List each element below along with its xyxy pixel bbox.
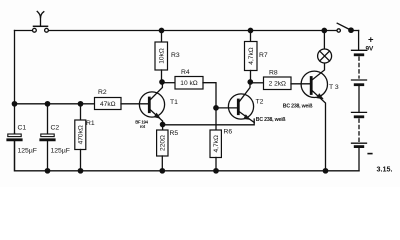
- wire R2 to T1 base: [121, 103, 148, 105]
- battery minus sign: [368, 153, 372, 155]
- svg-text:220Ω: 220Ω: [160, 135, 167, 151]
- svg-text:125µF: 125µF: [51, 148, 70, 155]
- svg-text:T 3: T 3: [329, 84, 339, 91]
- transistor T1 circle: [139, 92, 164, 117]
- resistor R2 body: [95, 98, 122, 110]
- resistor R3 body: [161, 31, 163, 43]
- resistor R4 body: [162, 82, 175, 84]
- svg-text:R4: R4: [181, 69, 190, 76]
- switch S2 contact circle: [337, 29, 340, 32]
- transistor T2 emitter arrow: [243, 114, 250, 120]
- node dot R7 bottom / R8 / T2 collector: [248, 80, 252, 84]
- transistor T1 emitter arrow: [154, 113, 161, 119]
- node dot R1 bottom: [78, 169, 82, 173]
- battery cell 4 long plate: [352, 142, 367, 144]
- transistor T3 collector: [312, 63, 325, 80]
- switch S2 pivot dot: [349, 28, 353, 32]
- svg-text:C2: C2: [51, 125, 60, 132]
- svg-text:470kΩ: 470kΩ: [78, 125, 85, 144]
- transistor T3 circle: [301, 71, 327, 97]
- svg-text:4,7kΩ: 4,7kΩ: [248, 47, 255, 64]
- transistor T2 collector: [239, 82, 250, 102]
- pushbutton S1 bridge: [34, 25, 48, 27]
- svg-text:R6: R6: [224, 129, 233, 136]
- node dot R6 bottom: [214, 169, 218, 173]
- transistor T2 emitter: [239, 112, 254, 123]
- battery bottom lead: [358, 148, 360, 171]
- wire left rail lower: [15, 142, 360, 171]
- resistor R6 body: [215, 108, 217, 130]
- transistor T1 collector: [150, 82, 162, 100]
- node dot R3 bottom / T1 collector / R4: [160, 80, 164, 84]
- svg-text:R3: R3: [171, 52, 180, 59]
- resistor R7 body: [250, 31, 252, 42]
- battery B1 top lead: [358, 31, 360, 51]
- wire R8 to T3 base: [291, 83, 310, 85]
- transistor T3 emitter: [312, 91, 326, 171]
- battery cell 2 short plate: [355, 83, 363, 86]
- wire top rail right segment after switch: [351, 30, 359, 32]
- svg-text:9V: 9V: [366, 46, 375, 53]
- svg-text:10kΩ: 10kΩ: [159, 48, 166, 64]
- battery cell 1 long plate: [352, 49, 367, 51]
- node dot R5 bottom: [160, 169, 164, 173]
- battery solid link: [358, 86, 360, 112]
- svg-text:BC 238, weiß: BC 238, weiß: [283, 104, 314, 110]
- svg-text:4,7kΩ: 4,7kΩ: [213, 135, 220, 152]
- transistor T2 base bar: [237, 100, 240, 114]
- wire left rail: [14, 31, 16, 134]
- svg-text:T2: T2: [256, 99, 264, 106]
- battery cell 1 short plate: [355, 53, 363, 56]
- pushbutton S1 stem: [40, 17, 42, 26]
- svg-text:47kΩ: 47kΩ: [100, 101, 116, 108]
- svg-text:125µF: 125µF: [18, 148, 37, 155]
- svg-text:R5: R5: [170, 130, 179, 137]
- transistor T3 base bar: [310, 78, 313, 94]
- resistor R5 body: [162, 125, 164, 131]
- svg-text:BC 238, weiß: BC 238, weiß: [256, 117, 287, 123]
- transistor T1 base bar: [148, 98, 151, 112]
- wire R4 right to T2 base node: [203, 83, 216, 108]
- svg-text:rot: rot: [140, 124, 146, 129]
- svg-text:T1: T1: [170, 99, 178, 106]
- pushbutton S1 contacts: [33, 28, 49, 32]
- transistor T1 emitter: [150, 110, 163, 125]
- battery cell 2 long plate: [352, 79, 367, 81]
- battery cell 4 short plate: [355, 145, 363, 148]
- wire top rail left segment: [15, 30, 33, 32]
- battery cell 3 long plate: [352, 111, 367, 113]
- node dot C2 bottom: [45, 169, 49, 173]
- node dot left rail / middle wire: [12, 102, 16, 106]
- svg-text:R8: R8: [269, 70, 278, 77]
- transistor T3 emitter arrow: [316, 93, 323, 99]
- lamp La1: [323, 31, 325, 50]
- battery dashed link 1: [358, 57, 360, 78]
- node dot T3 emitter bottom: [323, 169, 327, 173]
- wire top rail middle segment: [48, 30, 338, 32]
- switch S2 blade: [337, 23, 351, 30]
- node dot R1 top: [78, 102, 82, 106]
- wire middle base line y=104: [15, 103, 95, 105]
- capacitor C2: [47, 104, 49, 134]
- svg-text:R1: R1: [86, 120, 95, 127]
- svg-text:R7: R7: [259, 52, 268, 59]
- svg-text:2 2kΩ: 2 2kΩ: [269, 81, 286, 88]
- resistor R1 body: [80, 104, 82, 120]
- svg-text:10 kΩ: 10 kΩ: [180, 80, 197, 87]
- svg-text:+: +: [368, 34, 374, 45]
- battery cell 3 short plate: [355, 115, 363, 118]
- node dot C2 top: [45, 102, 49, 106]
- wire T2 base: [216, 107, 237, 109]
- wire emitter coupling T1-T2: [163, 119, 255, 125]
- svg-text:C1: C1: [18, 125, 27, 132]
- transistor T2 circle: [228, 94, 253, 119]
- svg-text:R2: R2: [98, 89, 107, 96]
- capacitor C1: [14, 132, 16, 134]
- battery dashed link 2: [358, 119, 360, 142]
- pushbutton S1 fork: [37, 11, 44, 17]
- svg-text:3.15.: 3.15.: [377, 165, 393, 174]
- resistor R8 body: [250, 82, 263, 84]
